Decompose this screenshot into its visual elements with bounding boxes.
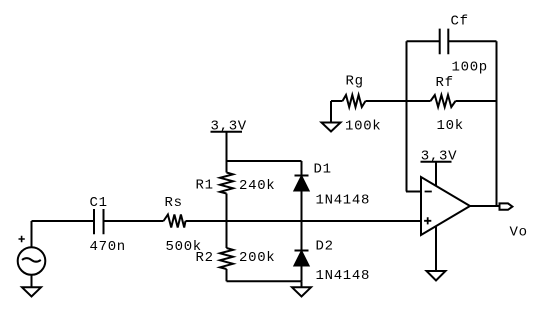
wire Rs to op-amp + input (through node) bbox=[186, 220, 422, 222]
wire V1 top to main node bbox=[31, 221, 33, 247]
svg-text:Rg: Rg bbox=[346, 74, 364, 90]
resistor Rg bbox=[331, 100, 343, 102]
svg-text:D1: D1 bbox=[314, 162, 332, 178]
wire - input bbox=[406, 191, 421, 193]
wire 3.3V down to top rail bbox=[226, 132, 228, 161]
svg-text:D2: D2 bbox=[316, 239, 334, 255]
wire ground pin bbox=[435, 226, 437, 271]
wire Rf to right feedback rail bbox=[456, 100, 497, 102]
wire feedback left vertical (to - input) bbox=[406, 41, 408, 191]
wire output bbox=[470, 205, 500, 207]
resistor R1 bbox=[226, 161, 228, 173]
svg-text:240k: 240k bbox=[239, 178, 275, 194]
svg-text:Rs: Rs bbox=[165, 195, 183, 211]
svg-text:10k: 10k bbox=[437, 118, 464, 134]
svg-text:R2: R2 bbox=[196, 250, 214, 266]
wire top loop right bbox=[448, 40, 496, 42]
svg-text:100k: 100k bbox=[345, 119, 381, 135]
ground (diode chain) bbox=[292, 287, 311, 296]
AC source V1 bbox=[18, 247, 46, 275]
wire stub to ground (diode chain) bbox=[301, 281, 303, 287]
wire main: source to C1 bbox=[32, 220, 95, 222]
svg-text:Vo: Vo bbox=[510, 225, 528, 241]
resistor R2 bbox=[226, 221, 228, 248]
ground (op-amp) bbox=[427, 271, 446, 281]
wire Rg left down to ground bbox=[330, 101, 332, 123]
resistor Rf bbox=[431, 95, 456, 107]
wire V1 bottom stub bbox=[31, 275, 33, 287]
svg-text:R1: R1 bbox=[196, 178, 214, 194]
resistor Rs bbox=[164, 215, 186, 228]
svg-text:470n: 470n bbox=[90, 239, 126, 255]
port Vo bbox=[500, 203, 513, 209]
capacitor Cf bbox=[440, 29, 449, 55]
diode D2 bbox=[301, 221, 303, 251]
svg-text:C1: C1 bbox=[90, 195, 108, 211]
svg-text:100p: 100p bbox=[452, 60, 488, 76]
svg-text:200k: 200k bbox=[239, 250, 275, 266]
wire supply pin bbox=[435, 162, 437, 187]
op-amp U1 bbox=[421, 177, 470, 235]
diode D1 bbox=[301, 161, 303, 176]
svg-text:Cf: Cf bbox=[451, 14, 469, 30]
wire top rail to diode column bbox=[227, 160, 302, 162]
svg-text:Rf: Rf bbox=[436, 75, 454, 91]
svg-text:1N4148: 1N4148 bbox=[316, 268, 371, 284]
svg-text:1N4148: 1N4148 bbox=[316, 193, 371, 209]
ground (source) bbox=[22, 287, 41, 296]
wire Rg to Rf and inverting node bbox=[366, 100, 431, 102]
wire bottom of divider bbox=[227, 280, 302, 282]
wire top loop left bbox=[407, 40, 440, 42]
wire feedback right vertical bbox=[496, 41, 498, 206]
wire C1 to Rs bbox=[104, 220, 164, 222]
ground (Rg) bbox=[322, 123, 341, 132]
capacitor C1 bbox=[94, 209, 104, 234]
